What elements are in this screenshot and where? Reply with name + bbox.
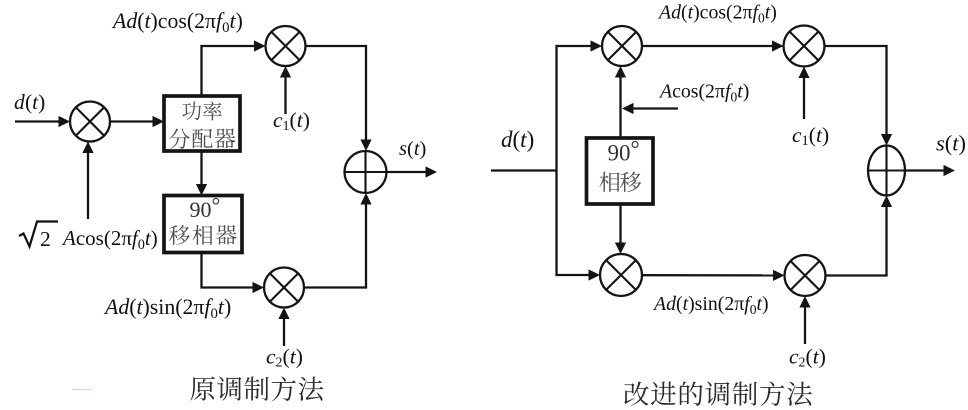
box: 90 deg phase shift (xiang yi)	[587, 138, 654, 204]
multiplier M2 (top, x c1)	[266, 26, 306, 66]
box text: gong-lv (power)	[182, 101, 222, 120]
wire: d(t) input to trunk	[491, 169, 557, 171]
wire: s(t) output of A2	[905, 169, 944, 171]
wire: M6 output into M7	[642, 274, 773, 276]
wire: 90deg box down into M6	[619, 204, 621, 243]
wire: M5 output right and down into adder A2	[825, 46, 887, 135]
svg-text:c1(t): c1(t)	[792, 123, 829, 149]
wire: divider bottom into 90 deg phase shifter	[200, 151, 202, 184]
wire: c2(t) up into M3	[283, 319, 285, 347]
svg-text:s(t): s(t)	[399, 138, 426, 160]
wire: s(t) output of A1	[387, 171, 427, 173]
wire: c1(t) up into M2	[284, 77, 286, 114]
caption: improved modulation method	[624, 381, 812, 406]
adder A2	[868, 146, 905, 196]
wire: phase shifter output down and right into M3	[202, 253, 253, 288]
svg-text:c2(t): c2(t)	[266, 345, 303, 371]
box: 90 deg phase shifter (yi xiang qi)	[164, 196, 242, 253]
svg-text:90°: 90°	[608, 136, 640, 165]
wire: M1 output into power divider box	[110, 120, 153, 122]
multiplier M6 (bottom-left)	[600, 254, 642, 296]
wire: divider top output up and right into M2	[202, 46, 255, 96]
stray scan mark	[72, 389, 92, 391]
svg-text:d(t): d(t)	[501, 127, 534, 152]
svg-text:d: d	[14, 90, 25, 114]
svg-text:2: 2	[40, 227, 51, 251]
wire: trunk top branch into M4	[557, 45, 592, 47]
svg-text:(t): (t)	[25, 90, 45, 114]
multiplier M7 (bottom-right, x c2)	[785, 255, 826, 296]
box text: yi-xiang-qi (phase shifter)	[169, 225, 237, 245]
multiplier M5 (top-right, x c1)	[784, 26, 825, 67]
wire: Acos carrier arrow pointing left into phase line	[633, 107, 678, 109]
wire: d(t) input into multiplier M1	[15, 120, 59, 122]
svg-text:s(t): s(t)	[936, 131, 966, 156]
adder A1	[345, 151, 387, 193]
svg-text:c2(t): c2(t)	[789, 345, 826, 371]
wire: M7 output right and up into adder A2	[826, 207, 887, 276]
svg-text:c1(t): c1(t)	[273, 108, 310, 134]
wire: M4 output into M5	[642, 45, 772, 47]
multiplier M4 (top-left)	[602, 26, 642, 66]
wire: M3 output right and up into adder A1	[304, 204, 366, 288]
multiplier M1 (d(t) x sqrt2 Acos)	[70, 102, 110, 142]
wire: trunk vertical split	[555, 45, 557, 276]
box: power divider (gong lv fen pei qi)	[164, 96, 240, 151]
wire: trunk bottom branch into M6	[557, 274, 590, 276]
wire: c2(t) up into M7	[804, 307, 806, 344]
box text: xiang-yi (phase shift)	[599, 172, 641, 192]
wire: phase line from 90deg box up into M4	[619, 77, 621, 138]
multiplier M3 (bottom, x c2)	[264, 268, 304, 308]
caption: original modulation method	[190, 376, 323, 401]
wire: c1(t) up into M5	[803, 78, 805, 120]
box text: fen-pei-qi (divider)	[169, 129, 235, 149]
wire: sqrt(2)Acos(2pi f0 t) carrier up into M1	[87, 152, 89, 219]
wire: M2 output right and down into adder A1	[306, 46, 367, 140]
label sqrt(2) Acos(2pi f0 t)	[19, 222, 58, 247]
